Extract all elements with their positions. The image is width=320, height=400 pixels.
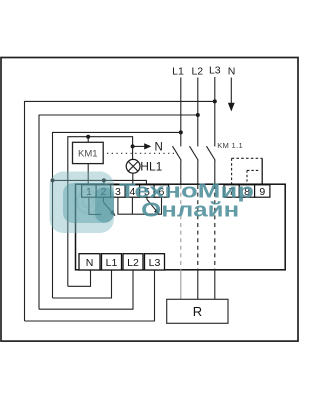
wire L2 drop upper — [197, 78, 199, 147]
pass-through L2 dashed — [197, 185, 199, 269]
terminal 5 — [140, 185, 155, 197]
aux contact inner dashed — [246, 170, 248, 184]
lamp HL1 — [126, 159, 140, 173]
terminal 6 — [154, 185, 169, 197]
arrow to N — [133, 145, 145, 147]
pass-through L3 dashed — [214, 185, 216, 269]
wire device to R (L2) — [197, 269, 199, 299]
svg-text:Онлайн: Онлайн — [141, 200, 239, 222]
wire L1 bottom wrap — [53, 270, 112, 298]
svg-text:N: N — [86, 257, 94, 269]
internal contact lever from terminal 5 — [146, 197, 148, 199]
svg-text:L1: L1 — [106, 257, 118, 269]
terminal 2 — [96, 185, 111, 197]
internal wire terminal4 lead — [131, 197, 133, 214]
internal contact terminal1 lead — [89, 197, 101, 214]
wire N bottom wrap — [68, 270, 91, 286]
junction dot N tap — [131, 144, 135, 148]
wire L3 drop upper — [214, 77, 216, 146]
svg-text:9: 9 — [259, 186, 265, 198]
terminal 7 — [224, 185, 239, 197]
wire device to R (L1, gray) — [180, 269, 182, 299]
wire terminal 9 to aux contact — [261, 158, 263, 184]
terminal 1 — [82, 185, 97, 197]
svg-text:N: N — [228, 66, 236, 78]
contactor contact KM1.1 pole 3 (L3) — [207, 146, 216, 160]
svg-text:L1: L1 — [172, 66, 184, 78]
wire L2 bottom wrap — [39, 270, 133, 309]
wire device to R (L3) — [214, 269, 216, 299]
pass-through L1 dashed (gray) — [180, 185, 182, 269]
terminal 3 — [111, 185, 126, 197]
wire KM1 coil to terminal 1 — [87, 164, 89, 185]
junction dot terminal2 feed — [102, 178, 106, 182]
terminal 9 — [255, 185, 270, 197]
svg-text:R: R — [193, 304, 202, 319]
contactor contact KM1.1 pole 2 (L2) — [190, 146, 199, 160]
bottom terminal N — [79, 254, 100, 270]
wire KM1 coil top — [87, 137, 89, 143]
device body — [76, 184, 286, 270]
svg-text:L2: L2 — [191, 66, 203, 78]
svg-text:L2: L2 — [127, 257, 139, 269]
bottom terminal L1 — [102, 254, 122, 270]
junction dot L1 — [179, 130, 183, 134]
wire L1 drop upper — [180, 78, 182, 147]
wire N horizontal from wrap — [68, 137, 133, 287]
border frame — [1, 58, 298, 342]
wire L1 horizontal from wrap — [53, 132, 181, 298]
junction dot KM1 top — [86, 135, 90, 139]
terminal 8 — [239, 185, 254, 197]
wire L2 horizontal from wrap — [39, 115, 198, 309]
svg-text:N: N — [155, 142, 163, 154]
wire L3 horizontal from wrap — [25, 101, 215, 321]
bottom terminal L3 — [145, 254, 165, 270]
svg-text:HL1: HL1 — [140, 159, 162, 173]
contactor coil KM1 — [73, 142, 104, 163]
internal contact lever from terminal 2 — [102, 197, 104, 202]
wire L3 bottom wrap — [25, 270, 155, 321]
terminal 4 — [125, 185, 140, 197]
junction dot L2 — [196, 113, 200, 117]
svg-text:L3: L3 — [149, 257, 161, 269]
mechanical link dotted line — [107, 152, 174, 154]
aux contact KM1.1 dashed box — [231, 158, 233, 184]
junction dot L3 — [213, 99, 217, 103]
svg-text:KM1: KM1 — [78, 149, 98, 160]
junction dot feed/L1wrap — [51, 178, 55, 182]
load R — [167, 299, 228, 323]
svg-text:L3: L3 — [209, 65, 221, 77]
watermark logo blob — [50, 172, 115, 234]
feed wire to terminals 2 and 5 — [53, 180, 147, 184]
bottom terminal L2 — [123, 254, 143, 270]
wire HL1 to terminal 4 — [132, 173, 134, 184]
wire N drop with arrow — [230, 78, 232, 104]
wire feed to terminal 2 — [103, 180, 105, 184]
svg-text:KM 1.1: KM 1.1 — [217, 141, 243, 150]
contactor contact KM1.1 pole 1 (L1) — [173, 146, 182, 160]
internal contact terminal3 lead — [118, 197, 162, 214]
